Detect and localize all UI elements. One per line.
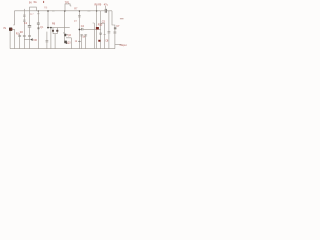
wire Q1 base column: [37, 11, 39, 49]
transistor Q3: [64, 41, 67, 44]
junction node E mid wire: [50, 27, 52, 29]
wire x104.6 column: [104, 23, 106, 48]
resistor tick on base column: [37, 13, 39, 15]
wire rail end elbow to output column: [112, 11, 115, 28]
resistor R4b ticks: [28, 35, 31, 36]
wire long vertical x29.5: [29, 11, 31, 49]
resistor R3 column: [23, 9, 26, 49]
junction node C on rail: [79, 10, 81, 12]
wire x48 from rail to mid wire: [47, 11, 49, 28]
wire bottom ground rail: [10, 48, 115, 50]
svg-text:IN: IN: [3, 27, 6, 30]
wire x79.4 full column: [78, 11, 81, 49]
wire x96.6 column: [96, 5, 98, 48]
resistor R12 column: [108, 11, 111, 49]
label right margin note: [120, 18, 124, 19]
svg-text:TP1: TP1: [65, 1, 70, 4]
wire input jack to divider: [12, 29, 14, 48]
svg-text:.5A: .5A: [33, 1, 37, 4]
wire test point flag: [65, 4, 71, 11]
wire output lead: [115, 44, 122, 46]
resistor R9 column: [84, 34, 87, 48]
wire diode pair join: [53, 32, 57, 49]
wire C6 label leader: [105, 6, 107, 9]
wire left vertical from rail: [13, 11, 14, 25]
diode D2 (dark red component): [98, 40, 100, 42]
junction node dot on base column: [38, 10, 39, 11]
junction node A on rail: [47, 10, 49, 12]
wire x50.9 to ground: [50, 28, 52, 49]
wire Q3 emitter to resistor: [66, 38, 71, 49]
connector J1 input jack: [9, 28, 12, 31]
capacitor C1 plates: [28, 26, 31, 27]
junction node D mid wire: [47, 27, 49, 29]
diode D4: [56, 30, 58, 32]
svg-text:R13: R13: [98, 24, 103, 27]
diode D1 (dark red component): [96, 27, 99, 30]
wire inter-stage horizontal: [79, 28, 100, 30]
junction node B on rail: [64, 10, 66, 12]
resistor tick on x79 column: [78, 40, 81, 42]
capacitor C7 plates: [114, 28, 117, 29]
capacitor C6 (series on rail): [105, 9, 106, 13]
diode D3: [52, 30, 54, 32]
transistor Q2: [63, 32, 67, 36]
wire mid horizontal: [48, 27, 70, 29]
junction node on rail x96.6: [96, 10, 97, 11]
resistor R2 column: [18, 33, 21, 48]
svg-text:Output: Output: [120, 44, 127, 47]
resistor R8 column: [80, 34, 83, 48]
transistor Q1: [38, 27, 40, 29]
svg-text:VR: VR: [33, 39, 37, 42]
wire x94.3 column: [93, 23, 95, 49]
wire drops to diode pair: [53, 28, 57, 30]
wire x100.6 column with elbow: [101, 11, 105, 49]
resistor R5 column to ground: [46, 32, 49, 49]
capacitor C4 plates: [82, 28, 83, 31]
ferrite bead on rail: [52, 10, 55, 12]
wire top supply rail: [14, 10, 112, 12]
potentiometer wiper arrow: [30, 38, 33, 41]
wire output column to ground rail: [114, 29, 117, 48]
svg-text:47u: 47u: [104, 4, 109, 7]
capacitor C9 plates: [100, 33, 102, 34]
capacitor C2 plates: [37, 23, 40, 24]
wire jack ground drop: [9, 31, 11, 49]
svg-text:9V: 9V: [29, 1, 32, 4]
ferrite bead 2 on rail: [87, 10, 90, 12]
junction node G emitter corner: [66, 42, 68, 44]
wire Q2 column elbow: [65, 11, 67, 43]
label test point value: [43, 1, 44, 3]
resistor R4 (rectangle bump on rail): [30, 7, 37, 11]
potentiometer wiper wire: [24, 39, 30, 41]
junction node F interstage: [79, 29, 81, 31]
